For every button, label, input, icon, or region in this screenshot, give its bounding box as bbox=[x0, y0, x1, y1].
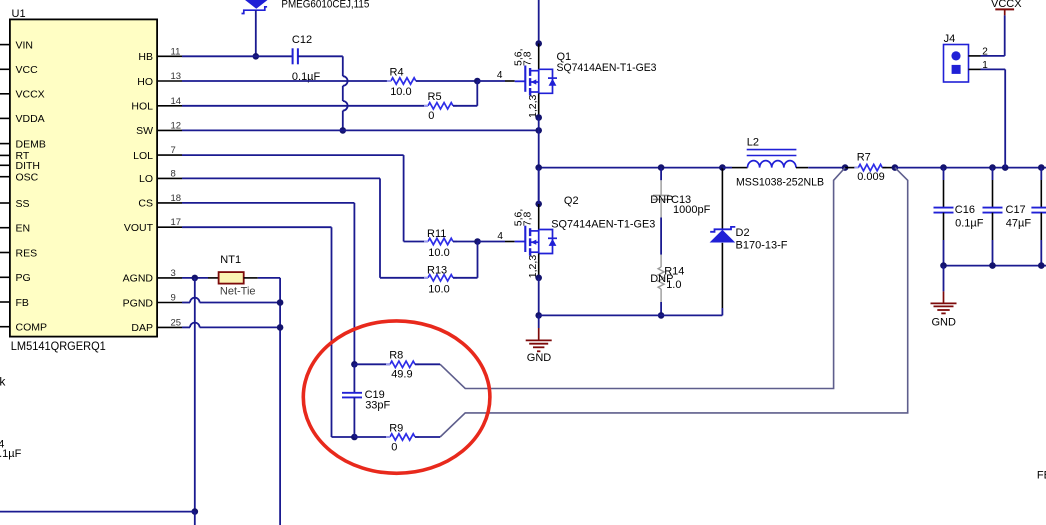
svg-text:Net-Tie: Net-Tie bbox=[220, 286, 256, 298]
wire Q2 drain stub bbox=[538, 204, 540, 230]
svg-text:Q2: Q2 bbox=[564, 195, 579, 207]
U1 pin LOL (pin 7) stub bbox=[157, 154, 182, 156]
capacitor C13 DNP grey symbol bbox=[660, 180, 662, 195]
capacitor C19 bbox=[353, 364, 355, 392]
transistor Q2 SQ7414AEN-T1-GE3 bbox=[524, 226, 526, 252]
svg-text:0: 0 bbox=[428, 110, 434, 122]
wire SW node bus to L2 bbox=[539, 167, 723, 169]
svg-text:7,8: 7,8 bbox=[521, 211, 533, 226]
svg-text:R9: R9 bbox=[389, 422, 403, 434]
wire R9 right lead bbox=[415, 436, 440, 438]
node junction DAP column bbox=[277, 324, 284, 331]
svg-text:13: 13 bbox=[171, 71, 182, 82]
wire PGND pin with hop over AGND drop bbox=[182, 302, 190, 304]
svg-text:0.1µF: 0.1µF bbox=[0, 448, 22, 460]
svg-text:0.009: 0.009 bbox=[857, 171, 885, 183]
capacitor C17 bottom lead bbox=[992, 213, 994, 240]
J4 pin 1 stub bbox=[969, 68, 981, 70]
node junction R9/C19 bottom bbox=[351, 434, 358, 441]
diode D2 B170-13-F symbol bbox=[710, 227, 735, 232]
U1 pin DEMB stub bbox=[0, 143, 10, 145]
svg-text:10.0: 10.0 bbox=[428, 247, 449, 259]
U1 pin PG stub bbox=[0, 276, 10, 278]
svg-text:VCCX: VCCX bbox=[16, 89, 45, 101]
svg-text:VCCX: VCCX bbox=[991, 0, 1022, 10]
wire C12 to SW drop with hops over HO and HOL bbox=[298, 55, 343, 57]
wire AGND pin to NT1 bbox=[182, 277, 208, 279]
svg-text:R11: R11 bbox=[427, 228, 446, 240]
svg-text:VDDA: VDDA bbox=[16, 113, 45, 125]
svg-text:HB: HB bbox=[138, 51, 153, 63]
svg-text:D2: D2 bbox=[736, 227, 750, 239]
svg-text:VOUT: VOUT bbox=[124, 222, 154, 234]
wire R11 to Q2 gate node bbox=[453, 241, 478, 243]
J4 pin 2 circle bbox=[951, 51, 960, 60]
svg-text:PG: PG bbox=[16, 272, 31, 284]
node junction SW column bbox=[535, 127, 542, 134]
U1 pin CS (pin 18) stub bbox=[157, 202, 182, 204]
wire R13 to gate node riser bbox=[453, 277, 478, 279]
svg-text:GND: GND bbox=[527, 352, 552, 364]
node junction C16 top bbox=[940, 164, 947, 171]
svg-text:EN: EN bbox=[16, 223, 31, 235]
wire HB pin to C12 bbox=[182, 55, 292, 57]
U1 pin PGND (pin 9) stub bbox=[157, 302, 182, 304]
svg-text:RES: RES bbox=[16, 247, 38, 259]
svg-text:47µF: 47µF bbox=[1006, 217, 1032, 229]
ground GND below Q2 bbox=[538, 315, 540, 328]
svg-text:DAP: DAP bbox=[131, 322, 153, 334]
node junction R8/C19 top bbox=[351, 361, 358, 368]
wire SW column between junctions bbox=[538, 168, 540, 204]
resistor R14 DNP grey symbol bbox=[660, 255, 662, 267]
inductor L2 MSS1038-252NLB bbox=[722, 167, 732, 169]
wire kelvin sense right (R9 net) bbox=[440, 168, 908, 437]
wire R14 bottom lead bbox=[660, 302, 662, 315]
svg-text:18: 18 bbox=[171, 193, 182, 204]
svg-text:R5: R5 bbox=[428, 91, 442, 103]
node junction D2 top bbox=[719, 164, 726, 171]
node junction C17 top bbox=[989, 164, 996, 171]
J4 pin 1 square bbox=[952, 65, 961, 74]
svg-text:DEMB: DEMB bbox=[16, 138, 46, 150]
svg-text:C17: C17 bbox=[1006, 204, 1026, 216]
wire AGND column below junction bbox=[194, 512, 196, 525]
U1 pin HOL (pin 14) stub bbox=[157, 105, 182, 107]
wire D2 cathode to bottom bus bbox=[721, 243, 723, 308]
U1 pin VDDA stub bbox=[0, 117, 10, 119]
wire HOL pin to R5 bbox=[182, 105, 428, 107]
wire HO pin to R4 bbox=[182, 80, 391, 82]
wire R7 to output caps bbox=[895, 167, 1046, 169]
svg-text:0: 0 bbox=[391, 441, 397, 453]
svg-text:SS: SS bbox=[16, 198, 30, 210]
wire C13 to R14 bbox=[660, 218, 662, 255]
U1 pin DITH stub bbox=[0, 164, 10, 166]
svg-text:4: 4 bbox=[497, 70, 503, 81]
wire Q1 source stub bbox=[538, 93, 540, 117]
op-amp U1 controller body LM5141QRGERQ1 bbox=[10, 19, 157, 336]
wire DAP pin with hop over AGND drop bbox=[182, 326, 190, 328]
svg-text:14: 14 bbox=[171, 96, 182, 107]
svg-text:33pF: 33pF bbox=[365, 400, 390, 412]
svg-text:10.0: 10.0 bbox=[428, 284, 449, 296]
resistor R5 bbox=[428, 103, 453, 109]
wire SW junction down to Q2 drain bbox=[538, 130, 540, 204]
svg-text:LO: LO bbox=[139, 173, 153, 185]
node Q1 source pins junction bbox=[535, 114, 542, 121]
node junction C18 bottom bbox=[1038, 262, 1045, 269]
capacitor C18 (right edge, clipped) bbox=[1040, 168, 1042, 180]
wire LO pin to R13 bbox=[182, 177, 380, 179]
svg-text:3: 3 bbox=[171, 268, 176, 279]
svg-text:8: 8 bbox=[171, 168, 176, 179]
U1 pin HB (pin 11) stub bbox=[157, 55, 182, 57]
capacitor C17 plates bbox=[983, 207, 1003, 209]
resistor R7 0.009 bbox=[845, 167, 858, 169]
node junction R4/R5/gate bbox=[474, 78, 481, 85]
wire R9 left lead bbox=[354, 436, 390, 438]
node junction C13 top bbox=[658, 164, 665, 171]
U1 pin OSC stub bbox=[0, 176, 10, 178]
svg-text:49.9: 49.9 bbox=[391, 368, 412, 380]
node junction C17 bottom bbox=[989, 262, 996, 269]
wire bottom left horizontal bbox=[0, 511, 195, 513]
svg-text:LOL: LOL bbox=[133, 150, 153, 162]
capacitor C17 top lead bbox=[992, 168, 994, 180]
node Q2 source pins junction bbox=[535, 275, 542, 282]
svg-text:R4: R4 bbox=[390, 66, 404, 78]
ground GND below output caps bbox=[943, 266, 945, 292]
resistor R11 bbox=[428, 238, 453, 244]
U1 pin RT stub bbox=[0, 154, 10, 156]
wire R8 right lead bbox=[415, 363, 440, 365]
capacitor C16 top lead bbox=[943, 168, 945, 180]
svg-text:2: 2 bbox=[982, 47, 988, 58]
svg-text:7,8: 7,8 bbox=[521, 51, 533, 66]
svg-text:CS: CS bbox=[138, 198, 153, 210]
node Q2 drain pins junction bbox=[535, 201, 542, 208]
svg-text:0.1µF: 0.1µF bbox=[955, 217, 984, 229]
svg-text:12: 12 bbox=[171, 120, 182, 131]
wire CS pin to R8 node bbox=[182, 202, 354, 204]
wire R8 left lead bbox=[354, 363, 390, 365]
U1 pin EN stub bbox=[0, 227, 10, 229]
wire kelvin sense left (R8 net) bbox=[440, 168, 845, 389]
svg-text:C16: C16 bbox=[955, 204, 975, 216]
svg-text:GND: GND bbox=[932, 316, 957, 328]
U1 pin LO (pin 8) stub bbox=[157, 177, 182, 179]
node junction C12/SW bbox=[340, 127, 347, 134]
svg-text:11: 11 bbox=[171, 46, 181, 57]
svg-text:COMP: COMP bbox=[16, 322, 48, 334]
wire SW pin to Q1 source column bbox=[182, 129, 539, 131]
wire Q1 source to SW junction bbox=[538, 118, 540, 131]
U1 pin COMP stub bbox=[0, 326, 10, 328]
svg-text:AGND: AGND bbox=[123, 273, 154, 285]
svg-text:FB: FB bbox=[1037, 470, 1046, 482]
wire J4 pin 1 to output bus bbox=[981, 68, 1006, 70]
svg-text:C12: C12 bbox=[292, 34, 312, 46]
svg-text:L2: L2 bbox=[747, 137, 759, 149]
U1 pin VCC stub bbox=[0, 68, 10, 70]
svg-text:SQ7414AEN-T1-GE3: SQ7414AEN-T1-GE3 bbox=[557, 62, 657, 74]
node junction C16 bottom bbox=[940, 262, 947, 269]
diode D1 PMEG6010CEJ symbol (top, cut off) bbox=[244, 0, 269, 9]
U1 pin FB stub bbox=[0, 301, 10, 303]
svg-text:R13: R13 bbox=[427, 265, 447, 277]
wire Q1 drain stub bbox=[538, 44, 540, 70]
U1 pin VCCX stub bbox=[0, 93, 10, 95]
node junction AGND bottom bbox=[192, 508, 199, 515]
wire top edge to Q1 drain bbox=[538, 0, 540, 44]
svg-text:VCC: VCC bbox=[16, 64, 39, 76]
svg-text:SQ7414AEN-T1-GE3: SQ7414AEN-T1-GE3 bbox=[551, 219, 655, 231]
node junction SW bus at Q column bbox=[535, 164, 542, 171]
svg-text:B170-13-F: B170-13-F bbox=[736, 240, 788, 252]
svg-text:DNP: DNP bbox=[650, 194, 673, 206]
svg-text:OSC: OSC bbox=[16, 172, 39, 184]
wire Q2 source to bottom bus bbox=[538, 278, 540, 316]
svg-text:R8: R8 bbox=[389, 350, 403, 362]
wire R5 to gate node riser bbox=[453, 105, 477, 107]
wire diode D1 cathode to HB net bbox=[255, 10, 257, 56]
resistor R8 bbox=[390, 361, 415, 367]
svg-text:1.0: 1.0 bbox=[666, 279, 681, 291]
svg-text:VIN: VIN bbox=[16, 39, 34, 51]
svg-text:HO: HO bbox=[137, 76, 153, 88]
node junction VCCX column bbox=[1002, 164, 1009, 171]
wire LOL pin to R11 bbox=[182, 154, 404, 156]
wire gate node to Q2 gate bbox=[478, 241, 506, 243]
svg-text:17: 17 bbox=[171, 217, 182, 228]
red highlight ellipse around R8/C19/R9 bbox=[303, 321, 490, 473]
power symbol VCCX bbox=[995, 8, 1014, 10]
svg-text:1,2,3: 1,2,3 bbox=[527, 94, 539, 118]
wire bottom bus Q2 to D2 column bbox=[539, 314, 723, 316]
svg-text:NT1: NT1 bbox=[220, 254, 241, 266]
node junction R7/sense-right bbox=[892, 164, 899, 171]
svg-text:PMEG6010CEJ,115: PMEG6010CEJ,115 bbox=[281, 0, 369, 11]
net-tie NT1 bbox=[219, 272, 244, 284]
capacitor C16 plates bbox=[934, 207, 954, 209]
svg-text:k: k bbox=[0, 374, 6, 388]
capacitor C16 bottom lead bbox=[943, 213, 945, 240]
wire R4 to Q1 gate node bbox=[416, 80, 477, 82]
U1 pin AGND (pin 3) stub bbox=[157, 277, 182, 279]
transistor Q1 SQ7414AEN-T1-GE3 bbox=[524, 66, 526, 92]
node junction bottom bus / GND bbox=[535, 312, 542, 319]
node junction PGND column bbox=[277, 299, 284, 306]
node junction AGND bbox=[192, 275, 199, 282]
node junction diode/HB bbox=[253, 53, 260, 60]
node junction R14 bottom bbox=[658, 312, 665, 319]
svg-text:U1: U1 bbox=[12, 8, 26, 20]
wire C13 top lead bbox=[660, 168, 662, 181]
svg-text:4: 4 bbox=[497, 231, 503, 242]
svg-text:J4: J4 bbox=[944, 33, 956, 45]
svg-text:1000pF: 1000pF bbox=[673, 204, 711, 216]
svg-text:25: 25 bbox=[171, 317, 182, 328]
svg-text:R7: R7 bbox=[857, 152, 871, 164]
J4 pin 2 stub bbox=[969, 55, 981, 57]
wire gate node to Q1 gate bbox=[477, 80, 505, 82]
wire Q2 source stub bbox=[538, 254, 540, 278]
resistor R4 bbox=[391, 78, 416, 84]
svg-text:SW: SW bbox=[136, 125, 153, 137]
capacitor C12 plates bbox=[292, 48, 294, 64]
wire NT1 to PGND/DAP column bbox=[244, 277, 258, 279]
node junction C18 top bbox=[1038, 164, 1045, 171]
U1 pin SS stub bbox=[0, 202, 10, 204]
node junction R11/R13/Q2 gate bbox=[474, 238, 481, 245]
wire output caps bottom bus bbox=[944, 265, 1046, 267]
U1 pin RES stub bbox=[0, 252, 10, 254]
wire VOUT pin to R9 node bbox=[182, 226, 332, 228]
svg-text:1,2,3: 1,2,3 bbox=[527, 255, 539, 279]
wire D2 anode column bbox=[721, 168, 723, 229]
svg-text:PGND: PGND bbox=[123, 297, 154, 309]
node junction L2/R7/sense-left bbox=[842, 164, 849, 171]
svg-text:7: 7 bbox=[171, 145, 176, 156]
svg-text:MSS1038-252NLB: MSS1038-252NLB bbox=[736, 177, 824, 189]
svg-text:HOL: HOL bbox=[131, 101, 153, 113]
wire AGND drop to bottom bbox=[194, 278, 196, 512]
svg-text:FB: FB bbox=[16, 297, 29, 309]
wire VCCX to J4 pin 2 bbox=[1004, 15, 1006, 56]
U1 pin VIN stub bbox=[0, 44, 10, 46]
svg-text:DITH: DITH bbox=[16, 160, 41, 172]
resistor R9 bbox=[390, 434, 415, 440]
connector J4 body bbox=[944, 45, 969, 83]
U1 pin SW (pin 12) stub bbox=[157, 129, 182, 131]
svg-text:10.0: 10.0 bbox=[390, 86, 411, 98]
svg-text:9: 9 bbox=[171, 293, 176, 304]
U1 pin HO (pin 13) stub bbox=[157, 80, 182, 82]
U1 pin DAP (pin 25) stub bbox=[157, 326, 182, 328]
svg-text:LM5141QRGERQ1: LM5141QRGERQ1 bbox=[11, 339, 106, 353]
U1 pin VOUT (pin 17) stub bbox=[157, 226, 182, 228]
resistor R13 bbox=[428, 275, 453, 281]
node Q1 drain pins junction bbox=[535, 40, 542, 47]
